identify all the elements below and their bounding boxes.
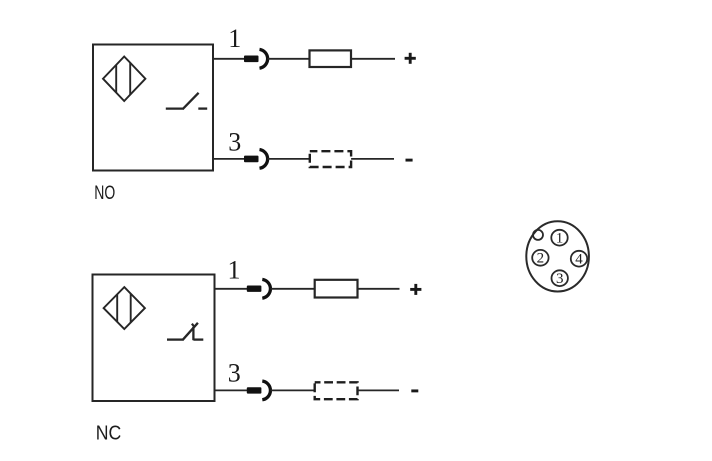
sensor body NO	[93, 45, 213, 171]
svg-text:3: 3	[228, 359, 241, 388]
connector pin 1	[551, 230, 567, 247]
sensor symbol diamond NC	[104, 287, 145, 329]
plus terminal NO	[405, 53, 416, 64]
connector pin 2	[532, 250, 548, 267]
connector plug NC pin1	[247, 286, 262, 292]
minus terminal NO	[406, 159, 413, 162]
connector keying notch	[533, 230, 543, 240]
svg-text:2: 2	[537, 251, 545, 267]
NO contact switch	[166, 93, 207, 109]
svg-text:1: 1	[228, 24, 241, 53]
wire NO pin1 from box	[213, 58, 245, 60]
load resistor NO pin1	[310, 50, 352, 67]
wire NO pin3 to dashed load	[268, 158, 310, 160]
svg-text:1: 1	[228, 256, 241, 285]
wire NC pin1 to plus	[358, 288, 400, 290]
wire NO pin1 to load	[268, 58, 310, 60]
sensor symbol diamond NO	[103, 57, 145, 102]
svg-text:NC: NC	[96, 421, 122, 444]
svg-text:NO: NO	[94, 182, 115, 204]
wire NC pin3 from box	[215, 389, 248, 391]
wire NC pin1 from box	[215, 288, 248, 290]
svg-text:4: 4	[575, 252, 583, 268]
optional load dashed NC pin3	[315, 382, 358, 399]
NC contact switch	[167, 323, 203, 340]
connector socket arc NC pin3	[262, 381, 270, 400]
load resistor NC pin1	[315, 280, 358, 298]
connector plug NO pin3	[244, 156, 259, 163]
connector pin 3	[552, 270, 568, 287]
connector socket arc NC pin1	[262, 279, 270, 298]
sensor body NC	[93, 275, 215, 402]
svg-text:3: 3	[228, 128, 241, 157]
wire NC pin3 to dashed load	[271, 389, 315, 391]
wire NO pin3 from box	[213, 158, 245, 160]
wire NC pin3 to minus	[358, 389, 400, 391]
wire NC pin1 to load	[271, 288, 315, 290]
wire NO pin1 to plus	[351, 58, 395, 60]
minus terminal NC	[411, 389, 418, 392]
svg-text:3: 3	[556, 271, 564, 287]
plus terminal NC	[410, 284, 421, 295]
connector socket arc NO pin1	[260, 49, 268, 68]
connector pin 4	[571, 251, 587, 268]
connector plug NC pin3	[247, 387, 262, 393]
connector plug NO pin1	[244, 56, 259, 63]
connector face outer circle	[526, 221, 589, 291]
wire NO pin3 to minus	[351, 158, 394, 160]
optional load dashed NO pin3	[310, 151, 351, 167]
connector socket arc NO pin3	[260, 150, 268, 169]
svg-text:1: 1	[556, 231, 564, 247]
